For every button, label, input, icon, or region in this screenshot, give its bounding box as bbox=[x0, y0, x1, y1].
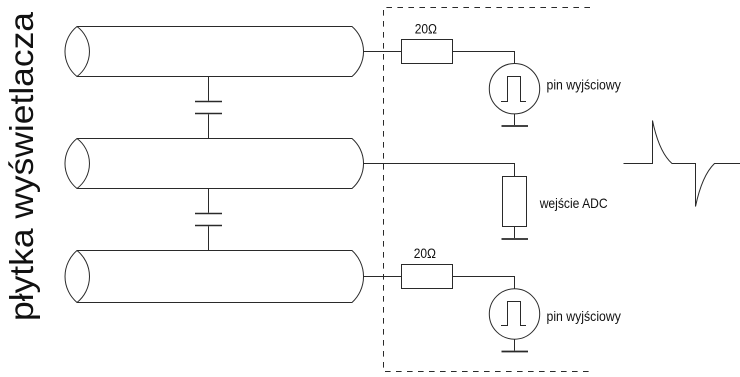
transmission line TL1 (top cylinder) bbox=[65, 27, 364, 77]
capacitor C2 (between TL2 and TL3) bbox=[195, 189, 222, 251]
resistor R2 (ADC input termination) bbox=[503, 177, 527, 227]
svg-text:20Ω: 20Ω bbox=[414, 246, 436, 261]
svg-text:pin wyjściowy: pin wyjściowy bbox=[547, 308, 621, 324]
wire: V1 to ground bbox=[514, 114, 516, 125]
ground (R2) bbox=[502, 238, 529, 240]
wire: TL1 to R1 bbox=[364, 51, 402, 53]
transmission line TL3 (bottom cylinder) bbox=[65, 251, 364, 303]
svg-text:20Ω: 20Ω bbox=[415, 22, 437, 37]
wire: R2 to ground bbox=[514, 227, 516, 239]
svg-text:płytka wyświetlacza: płytka wyświetlacza bbox=[3, 11, 40, 321]
wire: V2 to ground bbox=[514, 339, 516, 350]
pulse source V1 bbox=[489, 63, 539, 113]
pulse source V2 bbox=[489, 289, 539, 339]
svg-text:wejście ADC: wejście ADC bbox=[539, 195, 608, 211]
ground (V1) bbox=[502, 125, 529, 127]
transmission line TL2 (middle cylinder) bbox=[65, 139, 364, 189]
resistor R3 bbox=[402, 265, 453, 289]
svg-text:pin wyjściowy: pin wyjściowy bbox=[547, 77, 621, 93]
dashed boundary of display board region bbox=[384, 8, 591, 372]
waveform: differentiated pulse at ADC input bbox=[624, 121, 740, 207]
wire: R1 to pulse source V1 bbox=[453, 52, 515, 64]
ground (V2) bbox=[502, 351, 529, 353]
wire: R3 to pulse source V2 bbox=[453, 277, 515, 289]
resistor R1 bbox=[402, 40, 453, 64]
capacitor C1 (between TL1 and TL2) bbox=[195, 77, 222, 139]
wire: TL3 to R3 bbox=[364, 276, 402, 278]
wire: TL2 to R2 bbox=[364, 164, 515, 177]
